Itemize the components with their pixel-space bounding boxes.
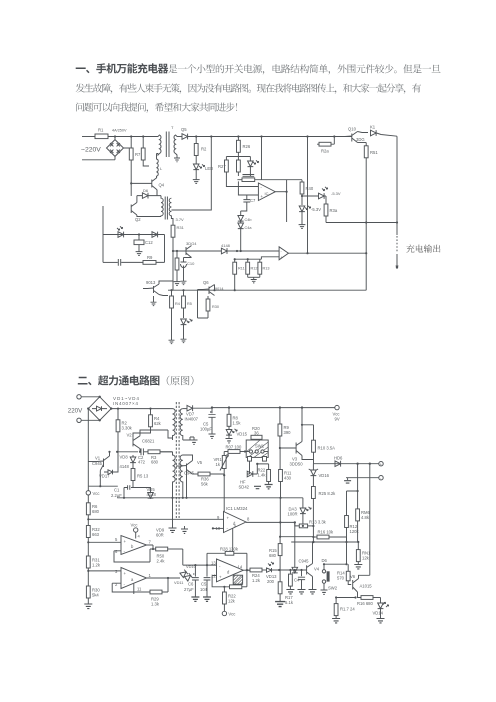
wire V6 emitter <box>358 592 362 598</box>
ground vd9 <box>181 526 188 533</box>
terminal AC1 <box>77 395 81 399</box>
resistor R16b 680 <box>357 596 381 606</box>
ground C12 <box>138 245 140 249</box>
node R9 top <box>279 406 281 408</box>
wire VD16 down <box>312 476 314 487</box>
node Q4 base <box>130 182 132 184</box>
Vcc terminal 9V <box>333 405 340 421</box>
resistor R32 <box>86 526 100 538</box>
node C1 bottom <box>123 497 125 499</box>
svg-text:R4: R4 <box>175 302 180 306</box>
svg-text:VD15: VD15 <box>237 432 248 437</box>
svg-text:R27: R27 <box>218 164 226 169</box>
svg-text:Vcc: Vcc <box>131 523 138 528</box>
resistor R22b 1.4k <box>258 468 271 485</box>
resistor R8 <box>227 408 241 427</box>
wire right rail <box>396 136 398 235</box>
node bridge bottom <box>99 419 101 421</box>
transformer T lower left winding <box>173 452 176 498</box>
long wire mid <box>117 497 303 499</box>
node rm <box>357 490 359 492</box>
wire LED to ground <box>195 170 197 177</box>
svg-text:R1.7 24: R1.7 24 <box>340 607 355 612</box>
diode VD11 <box>184 573 192 581</box>
resistor R14v <box>170 290 180 338</box>
node VD5 bottom <box>149 497 151 499</box>
svg-text:R2: R2 <box>201 147 207 152</box>
resistor R28 <box>237 160 241 172</box>
ground LED <box>193 177 200 183</box>
resistor R07 <box>224 445 246 454</box>
node V1c <box>108 451 110 453</box>
node R31 bottom <box>87 570 89 572</box>
diode DA3 <box>288 498 312 526</box>
svg-text:Q10: Q10 <box>348 127 357 132</box>
resistor R17b 24 <box>334 598 355 619</box>
circuit 1: phone universal charger schematic <box>81 125 398 344</box>
resistor R31 <box>171 225 185 237</box>
ground C5 <box>209 434 216 438</box>
wire opamp b out <box>147 545 156 549</box>
capacitor C5b 104 <box>200 565 210 597</box>
resistor R14 <box>337 564 351 584</box>
ground left rail <box>87 598 89 604</box>
transformer T2 secondary <box>169 198 173 225</box>
svg-text:C4b: C4b <box>245 218 252 222</box>
ground R17b <box>332 619 340 623</box>
ground Q7 <box>153 296 155 300</box>
svg-text:100µF: 100µF <box>200 427 212 432</box>
svg-text:1.3k: 1.3k <box>151 602 160 607</box>
diode VD10 <box>180 570 188 578</box>
resistor R4 <box>133 409 162 438</box>
svg-text:1.4k: 1.4k <box>258 473 267 478</box>
wire Q6 <box>198 285 215 306</box>
node D wire cross <box>226 156 250 158</box>
node opamp2 out <box>306 252 308 254</box>
wire V6 collector <box>359 575 370 578</box>
svg-text:R31: R31 <box>177 225 185 230</box>
wire Q7 to rail <box>143 281 173 296</box>
svg-text:V2: V2 <box>127 433 133 438</box>
svg-text:-5.3V: -5.3V <box>331 191 341 196</box>
svg-text:8: 8 <box>247 517 250 522</box>
resistor R15v <box>182 290 192 318</box>
wire V4 collector <box>312 542 314 564</box>
svg-text:R1: R1 <box>98 128 104 133</box>
wire R9h to loop right <box>156 235 165 263</box>
transistor V2 <box>127 433 156 449</box>
wire G down <box>333 137 335 145</box>
svg-text:9V: 9V <box>335 417 340 422</box>
diode VD7 <box>183 405 212 421</box>
svg-text:Q6: Q6 <box>203 280 209 285</box>
svg-text:680: 680 <box>151 460 159 465</box>
transistor Q7 <box>146 280 159 295</box>
svg-text:A1015: A1015 <box>360 584 373 589</box>
resistor R10 <box>302 425 335 452</box>
transistor V1 <box>92 456 110 468</box>
resistor R22 12k <box>223 587 237 612</box>
svg-text:12k: 12k <box>228 599 236 604</box>
zener VD17 <box>99 452 118 479</box>
svg-text:R11: R11 <box>238 267 245 271</box>
node C <box>237 135 239 137</box>
resistor R3a <box>324 196 338 223</box>
node out <box>396 266 398 268</box>
wire V5e down <box>186 472 188 498</box>
wire pin9 long <box>88 518 223 520</box>
wire V1 collector <box>109 452 111 456</box>
wire negative rail left <box>87 409 89 487</box>
svg-text:27µF: 27µF <box>184 587 194 592</box>
opto loop top wire <box>103 234 165 236</box>
svg-text:R2a: R2a <box>321 149 329 154</box>
inductor L1 <box>157 154 159 178</box>
svg-text:3DD50: 3DD50 <box>290 462 304 467</box>
transistor V3 <box>280 442 303 467</box>
wire R7 down <box>130 160 132 196</box>
svg-text:390: 390 <box>284 430 292 435</box>
output terminal marks <box>396 236 398 253</box>
diode D6 <box>137 188 161 203</box>
node em <box>99 485 101 487</box>
svg-text:C12: C12 <box>145 240 153 245</box>
wire opamp2 feedback vertical <box>307 137 309 254</box>
transistor Q8 <box>186 241 197 258</box>
resistor R13 <box>299 520 326 528</box>
svg-text:SW1: SW1 <box>255 444 265 449</box>
svg-text:SW2: SW2 <box>328 586 338 591</box>
diode C4a <box>238 222 253 252</box>
wire bridge right to transformer <box>111 408 172 410</box>
wire node to R22 <box>257 464 268 470</box>
node VR1 bottom <box>223 474 225 476</box>
node opamp d out <box>246 569 248 571</box>
node out1 <box>356 463 358 465</box>
ground minus <box>344 478 351 483</box>
wire minus <box>346 477 379 479</box>
zener VD15 <box>226 426 248 436</box>
svg-text:C7: C7 <box>250 198 256 203</box>
ground C4 <box>298 590 306 594</box>
wire Q10 e to K1 <box>349 132 368 137</box>
svg-text:680: 680 <box>269 553 277 558</box>
resistor Rc4 <box>289 570 293 590</box>
component C12 <box>134 235 153 246</box>
resistor R11 <box>233 259 245 290</box>
svg-text:60R: 60R <box>156 533 164 538</box>
svg-text:V1: V1 <box>95 456 101 461</box>
resistor R16 <box>317 530 347 543</box>
node bridge right <box>110 407 112 409</box>
wire R6 to node <box>87 515 89 527</box>
svg-text:4148: 4148 <box>221 243 231 248</box>
resistor R51 <box>358 143 379 158</box>
svg-text:1.5k: 1.5k <box>233 421 242 426</box>
wire vert E <box>261 137 263 180</box>
node r15 top <box>279 536 281 538</box>
ground RN1 <box>354 565 362 569</box>
wire AC2 to bridge <box>81 419 100 421</box>
transistor V4 <box>299 559 320 577</box>
resistor R31 <box>86 556 100 568</box>
node I on rail <box>396 221 398 223</box>
node out2 <box>369 463 371 465</box>
wire V5 base <box>176 465 180 467</box>
wire K1 to corner <box>377 133 398 136</box>
resistor R6 <box>86 495 99 515</box>
LED D8 <box>181 319 193 325</box>
transistor V6 <box>350 574 372 592</box>
resistor RM6 4.8k <box>356 491 371 542</box>
wire Q2 emitter loop <box>137 215 161 217</box>
hatched box SW1 <box>246 440 268 457</box>
node T tap <box>171 497 173 499</box>
transformer T1 secondary <box>174 135 177 158</box>
node vr1 pin9 <box>223 518 225 520</box>
capacitor C4 <box>294 570 305 590</box>
resistor R17 5k1 <box>278 570 294 605</box>
zener VD16 <box>309 464 330 478</box>
node R32 bottom <box>87 541 89 543</box>
svg-text:R30: R30 <box>212 305 219 309</box>
svg-text:4A/250V: 4A/250V <box>112 129 127 133</box>
svg-text:9013: 9013 <box>146 280 156 285</box>
node x346 <box>345 541 347 543</box>
wire R25 down <box>312 499 314 543</box>
diode D5 <box>152 232 158 238</box>
svg-text:VD8: VD8 <box>120 455 129 460</box>
svg-text:R51: R51 <box>370 150 378 155</box>
wire IC1 out down <box>294 522 296 567</box>
node c6 top <box>194 564 196 566</box>
wire 537 stub <box>280 536 313 538</box>
svg-text:570: 570 <box>337 576 345 581</box>
node R11 minus <box>236 250 238 252</box>
resistor R24 <box>250 568 267 583</box>
wire long vertical left mid <box>171 137 211 211</box>
ground LED2 <box>301 212 303 222</box>
capacitor C5 <box>200 408 216 434</box>
svg-text:IN4007: IN4007 <box>185 417 199 422</box>
svg-text:HD6: HD6 <box>334 456 343 461</box>
resistor R2 <box>116 409 133 452</box>
resistor R29 1.3k <box>150 578 168 607</box>
wire VR1 to pin9 <box>223 475 225 518</box>
svg-text:R12: R12 <box>251 267 258 271</box>
svg-text:1.2k: 1.2k <box>92 563 101 568</box>
wire opamp2 minus in <box>237 250 279 252</box>
wire mid horizontal to rail <box>326 222 397 224</box>
svg-text:R07 100: R07 100 <box>226 445 243 450</box>
switch boxes SW1 pins <box>248 457 267 462</box>
svg-text:V6: V6 <box>350 574 356 579</box>
svg-text:R3a: R3a <box>330 208 338 213</box>
svg-text:1.2k: 1.2k <box>252 578 261 583</box>
node B <box>210 135 212 137</box>
svg-text:Q5: Q5 <box>181 127 187 132</box>
svg-text:R16 10k: R16 10k <box>318 530 335 535</box>
node x280 out row <box>279 521 281 523</box>
ground mid left <box>169 528 177 532</box>
wire V3 collector <box>301 425 303 442</box>
node sw1 out <box>256 463 258 465</box>
circuit 2: Chaolitong charger schematic <box>68 395 389 623</box>
op-amp U2d <box>217 559 244 582</box>
wire diode up node <box>253 464 257 474</box>
svg-text:4: 4 <box>138 534 141 539</box>
ground Q8 stage <box>174 279 181 285</box>
wire Q4 emitter down <box>156 190 158 196</box>
fuse R1 <box>95 128 127 139</box>
wire R28 right leg <box>246 553 248 587</box>
wire V1 emitter down <box>100 465 103 487</box>
svg-text:100R: 100R <box>288 512 298 517</box>
svg-text:11: 11 <box>137 587 142 592</box>
svg-text:9014: 9014 <box>215 287 223 291</box>
node T lower right bottom <box>182 497 184 499</box>
resistor R25 <box>312 487 337 499</box>
node J <box>138 233 140 235</box>
svg-text:R16 680: R16 680 <box>357 601 374 606</box>
node F top rail <box>306 135 308 137</box>
output wire plus <box>314 463 379 465</box>
svg-text:~220V: ~220V <box>81 147 101 154</box>
resistor RN1 12k <box>356 542 371 565</box>
svg-text:C6821: C6821 <box>142 439 155 444</box>
terminal minus <box>379 476 383 481</box>
ground T1 secondary <box>174 158 180 162</box>
node R8 top <box>142 135 144 137</box>
svg-text:Vcc: Vcc <box>93 491 100 496</box>
wire opamp plus row <box>238 172 258 195</box>
wire out14 to R24 <box>247 569 250 571</box>
wire V3 collector up <box>301 408 303 425</box>
node 3.7V rail tap <box>172 250 174 252</box>
node R8 <box>228 406 230 408</box>
node zener row <box>301 195 303 197</box>
transistor Q2 <box>131 203 141 223</box>
wire vert out <box>286 180 288 222</box>
svg-text:430: 430 <box>284 476 292 481</box>
svg-text:VD11: VD11 <box>174 580 183 585</box>
svg-text:3.7V: 3.7V <box>176 217 185 222</box>
wire T1 to diode <box>177 136 182 138</box>
wire V2 collector to T primary <box>140 430 173 438</box>
svg-text:1: 1 <box>149 573 152 578</box>
svg-text:6: 6 <box>115 549 118 554</box>
svg-text:IC1 LM324: IC1 LM324 <box>226 506 248 511</box>
ground R22b <box>265 485 273 489</box>
svg-text:+: + <box>260 194 263 199</box>
node R32v top <box>176 250 178 252</box>
resistor R11b 430 <box>279 447 292 498</box>
resistor R28 130k <box>207 547 247 556</box>
svg-text:2.2µF: 2.2µF <box>111 493 122 498</box>
wire pin6 fb <box>114 549 150 562</box>
node d6 left <box>323 563 325 565</box>
capacitor C9 <box>241 195 256 211</box>
svg-text:R13 3.3k: R13 3.3k <box>309 520 327 525</box>
hatched box X1 <box>233 575 242 584</box>
wire R26 to node D <box>237 152 239 160</box>
svg-text:LED: LED <box>205 166 213 171</box>
wire V5 collector <box>183 455 193 461</box>
svg-text:L: L <box>160 166 163 171</box>
wire sw right <box>264 451 268 453</box>
svg-text:3DG4: 3DG4 <box>186 241 197 246</box>
diode VD13 <box>266 562 279 584</box>
svg-text:Q2: Q2 <box>135 217 141 222</box>
svg-text:R26: R26 <box>243 144 251 149</box>
node d6 right <box>345 563 347 565</box>
opto loop bottom wire <box>103 261 118 263</box>
node c5 top <box>206 564 208 566</box>
svg-text:R25 8.2k: R25 8.2k <box>319 491 337 496</box>
wire pin12 loop <box>212 576 229 587</box>
node c4b <box>300 569 302 571</box>
wire bridge right to node <box>124 137 132 149</box>
svg-text:+: + <box>124 539 127 544</box>
resistor R20 <box>251 426 262 440</box>
wire C11 to R9h <box>121 261 143 263</box>
resistor R40h <box>242 178 255 182</box>
svg-text:680: 680 <box>92 509 100 514</box>
svg-text:14: 14 <box>238 565 243 570</box>
wire pin10 <box>213 527 224 529</box>
wire left tap to ground <box>172 498 174 528</box>
wire emitter left <box>336 597 355 599</box>
wire base row <box>173 250 221 252</box>
wire x280 down <box>279 498 281 537</box>
transformer T1 primary <box>157 135 162 155</box>
resistor R30 <box>198 296 219 318</box>
terminal plus <box>379 462 383 467</box>
node bridge top <box>99 396 101 398</box>
node R2 top <box>117 408 119 410</box>
wire AC1 to bridge <box>81 396 100 398</box>
wire IC1 out to R13 <box>246 522 299 526</box>
node R4 top <box>149 408 151 410</box>
wire top rail mid <box>188 136 349 138</box>
wire R28 left leg <box>206 553 208 565</box>
bridge rectifier B1 <box>107 140 124 157</box>
svg-text:220V: 220V <box>68 408 83 415</box>
svg-text:+: + <box>219 575 222 580</box>
wire VR1 bottom <box>223 469 225 476</box>
wire under opamp <box>235 257 279 259</box>
svg-text:56k: 56k <box>201 482 209 487</box>
opto loop left vertical <box>102 206 104 262</box>
node DA3 bottom <box>302 525 304 527</box>
svg-text:R7: R7 <box>135 152 141 157</box>
wire R40 to LED2 <box>301 194 303 205</box>
ground VD15 <box>228 436 230 439</box>
capacitor C1 <box>111 485 133 498</box>
wire Vcc node chain <box>88 485 118 487</box>
ground R14v <box>169 338 175 344</box>
resistor R50 2.4k <box>156 547 183 563</box>
node L <box>182 289 184 291</box>
svg-text:R9: R9 <box>147 255 153 260</box>
resistor R7 <box>129 148 141 160</box>
wire opamp out <box>275 191 286 193</box>
resistor R9 <box>278 408 291 448</box>
wire diode to opamp2 <box>227 250 237 252</box>
svg-text:3: 3 <box>115 569 118 574</box>
zener C7 <box>248 157 259 167</box>
